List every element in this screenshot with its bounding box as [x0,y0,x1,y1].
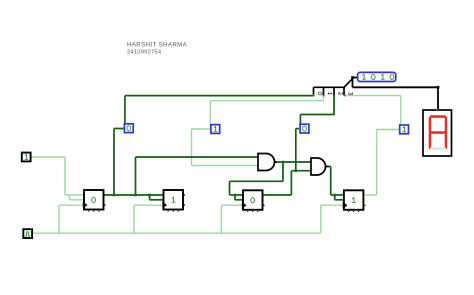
splitter stub connection dots [312,94,345,115]
D flip-flop FF4 value 1 [343,190,366,212]
output pin O2 value 1 [211,125,220,134]
wire bus splitter to displays black [353,78,439,111]
wire clock net [33,205,344,233]
title text [127,42,188,56]
svg-text:2410992754: 2410992754 [127,50,162,56]
wire net FF4 Q to out3 and splitter bit3 [344,96,401,196]
wire net FF1 Q dark: to FF2 D, out0, AND1 upper, splitter bit0 [104,96,314,200]
wire net FF3 Q dark: to AND2 in2, out2, splitter bit2 [264,95,335,195]
clock CLK1 [23,229,32,238]
splitter SP1 [312,79,352,115]
wire net FF2 value1 to out1, AND1 lower input, splitter bit1 [192,95,324,166]
D flip-flop FF2 value 1 [162,190,185,212]
AND gate A2 [311,158,329,175]
4-bit output display DISP1 value 1010 [358,72,396,81]
junction dot bus corner [351,76,439,89]
D flip-flop FF1 value 0 [83,190,106,212]
output pin O3 value 0 [300,124,309,133]
wire AND1 output to AND2 in1 and FF3 D [230,162,312,200]
junction dots [113,161,336,197]
wire AND2 output to FF4 D [326,167,344,200]
wire input1 to FF1 D [31,157,84,200]
input pin IN1 value 1 [22,153,31,162]
D flip-flop FF3 value 0 [242,190,265,212]
hex display H1 showing A [423,109,452,156]
svg-text:HARSHIT SHARMA: HARSHIT SHARMA [127,42,188,49]
output pin O4 value 1 [400,125,409,134]
AND gate A1 [258,154,277,171]
output pin O1 value 0 [124,124,133,133]
